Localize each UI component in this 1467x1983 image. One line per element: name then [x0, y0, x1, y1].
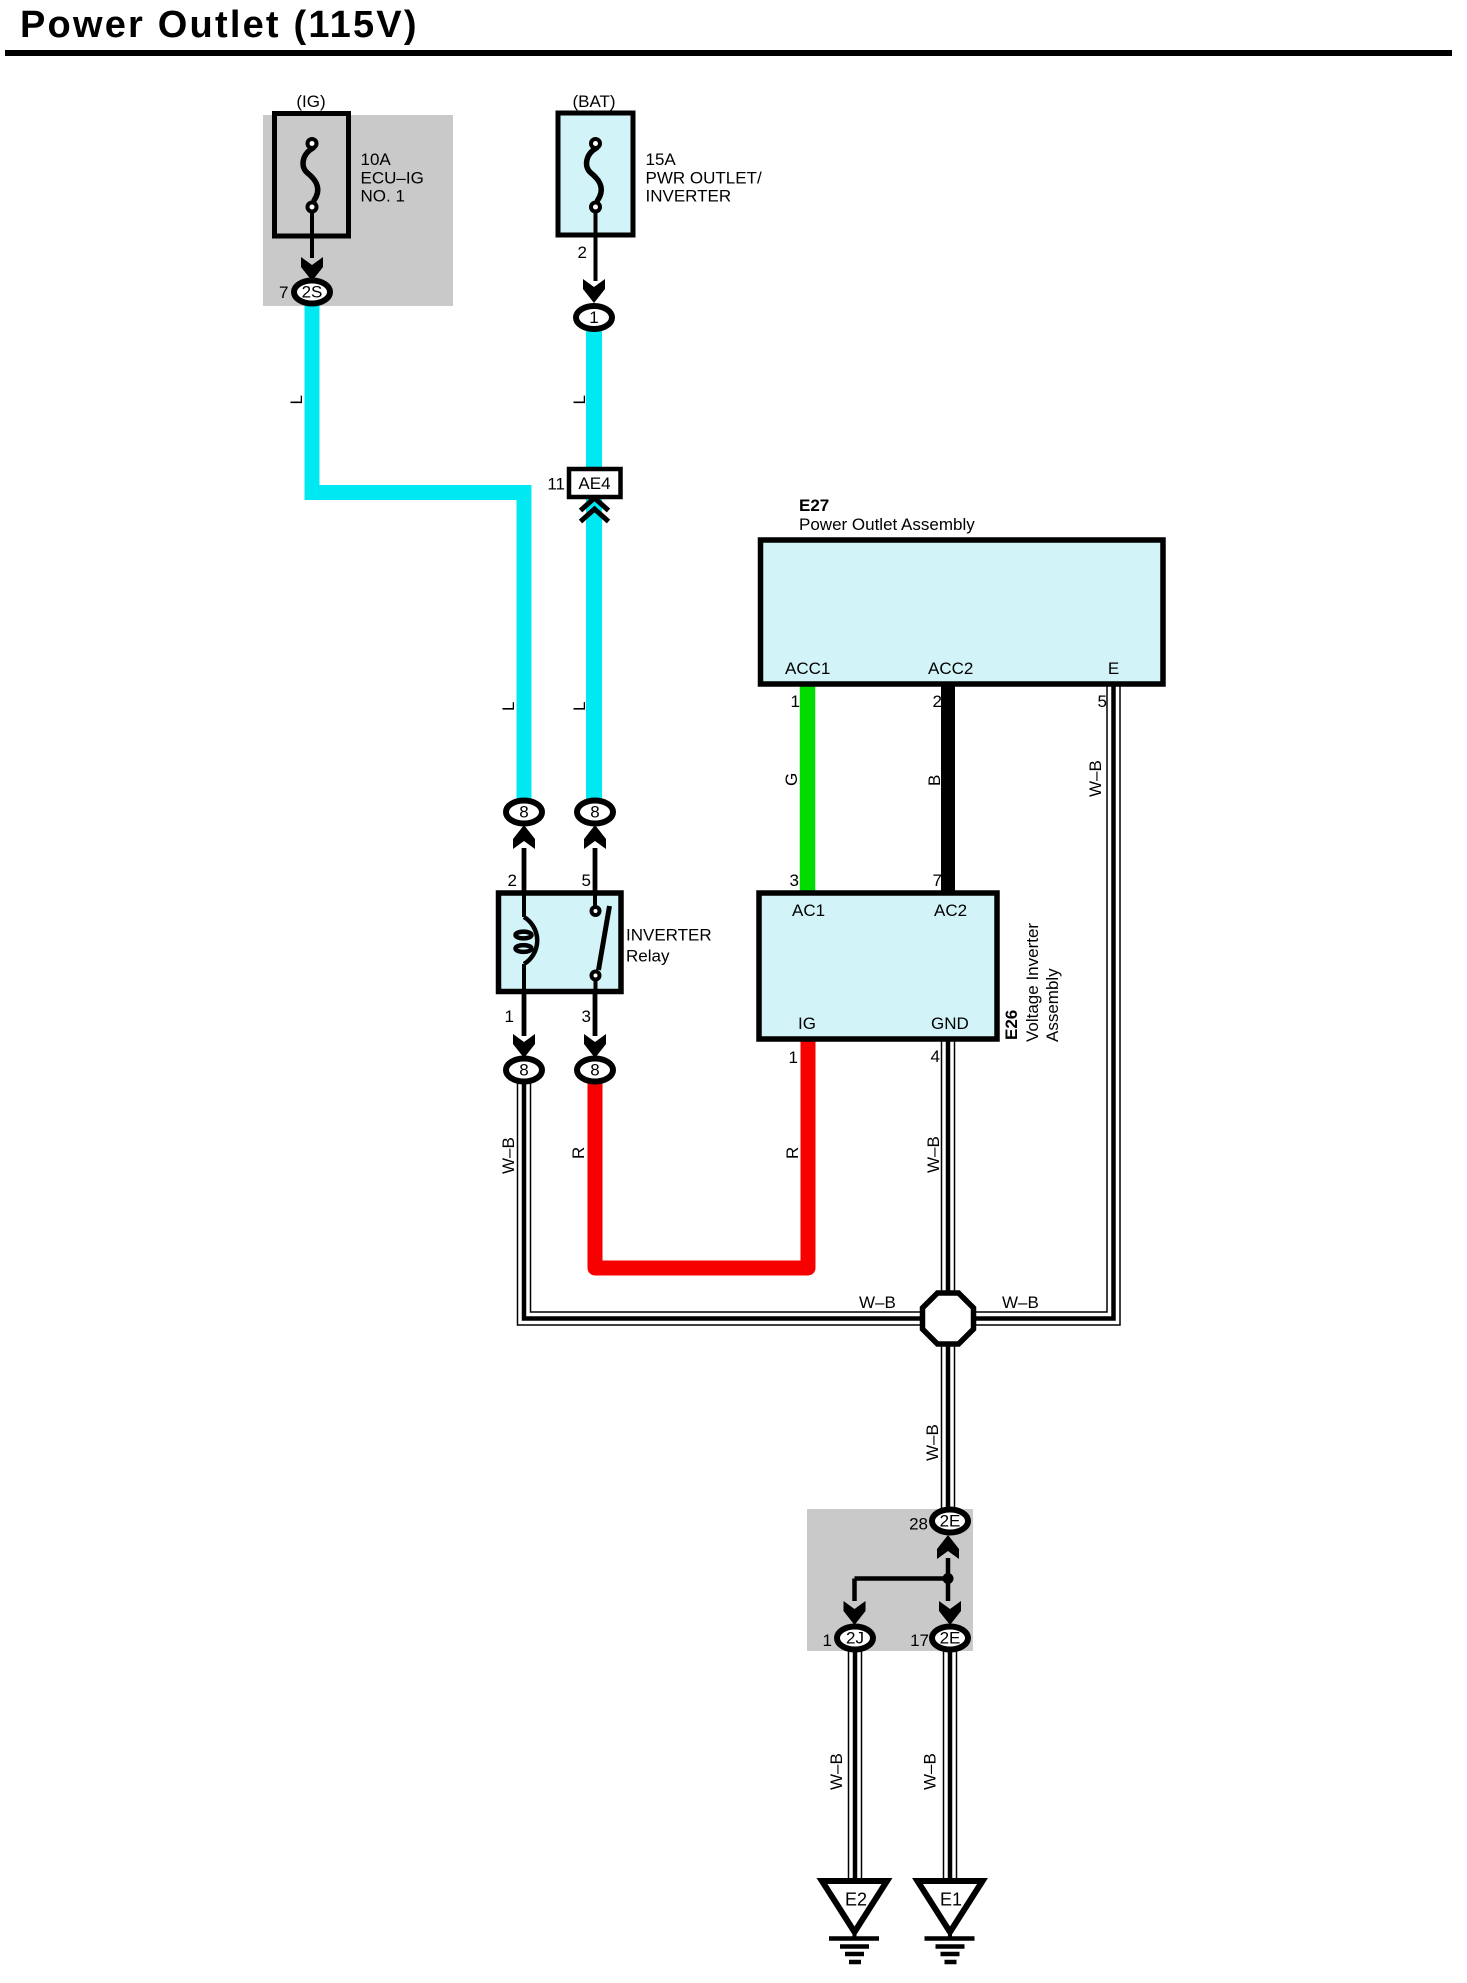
svg-text:R: R [569, 1147, 588, 1159]
svg-text:NO. 1: NO. 1 [361, 187, 405, 206]
svg-text:17: 17 [910, 1631, 929, 1650]
svg-text:7: 7 [933, 871, 942, 890]
voltage inverter assembly E26 box [759, 893, 997, 1039]
svg-text:W–B: W–B [1002, 1293, 1039, 1312]
connector oval 2S [294, 281, 330, 304]
svg-text:AE4: AE4 [578, 474, 610, 493]
svg-text:5: 5 [1098, 692, 1107, 711]
svg-text:ECU–IG: ECU–IG [361, 169, 424, 188]
E27 designator label [799, 496, 975, 534]
svg-text:Relay: Relay [626, 947, 670, 966]
wire relay pin 5 lead [593, 848, 598, 895]
connector arrow into oval 1 [583, 279, 605, 303]
svg-text:GND: GND [931, 1014, 969, 1033]
fuse 15A PWR OUTLET/INVERTER [558, 113, 633, 235]
svg-text:W–B: W–B [1086, 760, 1105, 797]
svg-text:3: 3 [790, 871, 799, 890]
junction block 2E/2J shaded background [807, 1509, 973, 1651]
svg-text:15A: 15A [646, 150, 677, 169]
svg-text:ACC1: ACC1 [785, 659, 830, 678]
wire L cyan from fuse PWR OUTLET via AE4 to relay pin 5 [586, 325, 602, 802]
junction block 2S shaded background [263, 115, 453, 306]
wire fuse PWR OUTLET pin 2 to connector 1 [594, 211, 598, 281]
wire R red relay pin 3 to inverter IG [595, 1039, 808, 1268]
wire 2E-28 to junction dot [946, 1558, 951, 1578]
svg-text:W–B: W–B [859, 1293, 896, 1312]
svg-text:E27: E27 [799, 496, 829, 515]
wire relay pin 3 lead [593, 989, 598, 1036]
relay INVERTER box [499, 893, 622, 992]
svg-text:2J: 2J [846, 1629, 864, 1648]
svg-text:AC1: AC1 [792, 901, 825, 920]
svg-text:L: L [570, 702, 589, 711]
wire B black ACC2 to AC2 [941, 684, 955, 893]
wire relay pin 1 lead [522, 989, 527, 1036]
svg-text:ACC2: ACC2 [928, 659, 973, 678]
svg-text:PWR OUTLET/: PWR OUTLET/ [646, 169, 762, 188]
svg-text:2: 2 [933, 692, 942, 711]
wire W-B from power outlet E to junction [968, 684, 1114, 1319]
power outlet assembly E27 box [761, 540, 1164, 684]
svg-text:E2: E2 [845, 1890, 867, 1910]
wire branch to 2E-17 [946, 1579, 951, 1602]
wire W-B from inverter GND to junction [941, 1035, 956, 1300]
svg-text:L: L [287, 395, 306, 404]
svg-text:Power Outlet (115V): Power Outlet (115V) [20, 4, 419, 46]
svg-text:L: L [499, 702, 518, 711]
svg-text:2S: 2S [302, 283, 323, 302]
svg-text:E1: E1 [940, 1890, 962, 1910]
connector oval 8 top-left with arrow [513, 825, 535, 849]
connector oval 8 top-right with arrow [584, 825, 606, 849]
junction dot [943, 1573, 954, 1584]
wire relay pin 2 lead [522, 848, 527, 895]
svg-text:G: G [782, 773, 801, 786]
AE4 double chevron [581, 498, 609, 522]
svg-text:R: R [783, 1147, 802, 1159]
svg-text:L: L [570, 395, 589, 404]
relay name label [626, 926, 712, 966]
svg-text:1: 1 [505, 1007, 514, 1026]
svg-text:AC2: AC2 [934, 901, 967, 920]
E26 terminal labels [792, 901, 969, 1033]
wire branch to 2J [852, 1579, 857, 1602]
connector 2E pin 28 oval with arrow [937, 1535, 959, 1559]
svg-text:(IG): (IG) [296, 92, 325, 111]
svg-text:2E: 2E [940, 1512, 961, 1531]
svg-text:1: 1 [789, 1048, 798, 1067]
svg-text:3: 3 [582, 1007, 591, 1026]
svg-text:2: 2 [578, 243, 587, 262]
junction connector AE4 [569, 469, 621, 497]
connector oval 8 bottom-right with arrow [584, 1034, 606, 1058]
fuse 10A ECU-IG NO.1 [275, 114, 349, 237]
svg-text:B: B [925, 775, 944, 786]
svg-text:W–B: W–B [921, 1753, 940, 1790]
svg-text:1: 1 [791, 692, 800, 711]
svg-text:W–B: W–B [924, 1136, 943, 1173]
connector oval 1 [576, 306, 612, 329]
svg-text:IG: IG [798, 1014, 816, 1033]
svg-text:2: 2 [508, 871, 517, 890]
wire L cyan from fuse ECU-IG via 2S to relay pin 2 [312, 299, 524, 802]
svg-text:8: 8 [519, 803, 528, 822]
svg-text:1: 1 [589, 308, 598, 327]
svg-text:2E: 2E [940, 1629, 961, 1648]
wire W-B from relay pin 1 to junction [524, 1082, 930, 1319]
svg-text:7: 7 [279, 283, 288, 302]
svg-text:INVERTER: INVERTER [626, 926, 712, 945]
svg-text:11: 11 [547, 475, 565, 494]
svg-text:W–B: W–B [827, 1753, 846, 1790]
relay switch [592, 895, 610, 991]
E27 terminal labels [785, 659, 1119, 678]
fuse value 15A PWR OUTLET/INVERTER [646, 150, 762, 206]
fuse value 10A ECU-IG NO.1 [361, 150, 424, 206]
connector arrow into 2S [301, 257, 323, 281]
svg-text:Voltage Inverter: Voltage Inverter [1023, 923, 1042, 1042]
svg-text:8: 8 [519, 1061, 528, 1080]
connector 2E pin 17 oval with arrow [939, 1601, 961, 1625]
wire fuse ECU-IG to connector 2S [310, 211, 314, 258]
ground E2 [822, 1881, 887, 1962]
svg-text:1: 1 [823, 1631, 832, 1650]
svg-text:E26: E26 [1002, 1010, 1021, 1040]
connector 2J pin 1 oval with arrow [844, 1601, 866, 1625]
connector oval 8 bottom-left with arrow [513, 1034, 535, 1058]
svg-text:E: E [1108, 659, 1119, 678]
svg-text:W–B: W–B [923, 1424, 942, 1461]
junction octagon [923, 1293, 974, 1344]
svg-text:W–B: W–B [499, 1137, 518, 1174]
relay coil [516, 895, 538, 991]
svg-text:8: 8 [590, 803, 599, 822]
wire G green ACC1 to AC1 [800, 684, 816, 893]
wire W-B from connector 2J to ground E2 [848, 1650, 863, 1884]
svg-text:5: 5 [582, 871, 591, 890]
svg-text:INVERTER: INVERTER [646, 187, 732, 206]
svg-text:Assembly: Assembly [1043, 968, 1062, 1042]
svg-text:4: 4 [931, 1047, 940, 1066]
wire W-B from connector 2E pin 17 to ground E1 [943, 1650, 958, 1884]
ground E1 [918, 1881, 983, 1962]
wire W-B from junction to connector 2E pin 28 [941, 1340, 956, 1508]
svg-text:28: 28 [909, 1515, 928, 1534]
svg-text:8: 8 [590, 1061, 599, 1080]
wire junction dot branch horizontal [855, 1576, 949, 1581]
title underline [5, 50, 1452, 56]
svg-text:Power Outlet Assembly: Power Outlet Assembly [799, 515, 975, 534]
E26 name rotated [1023, 923, 1062, 1042]
svg-text:(BAT): (BAT) [572, 92, 615, 111]
svg-text:10A: 10A [361, 150, 392, 169]
